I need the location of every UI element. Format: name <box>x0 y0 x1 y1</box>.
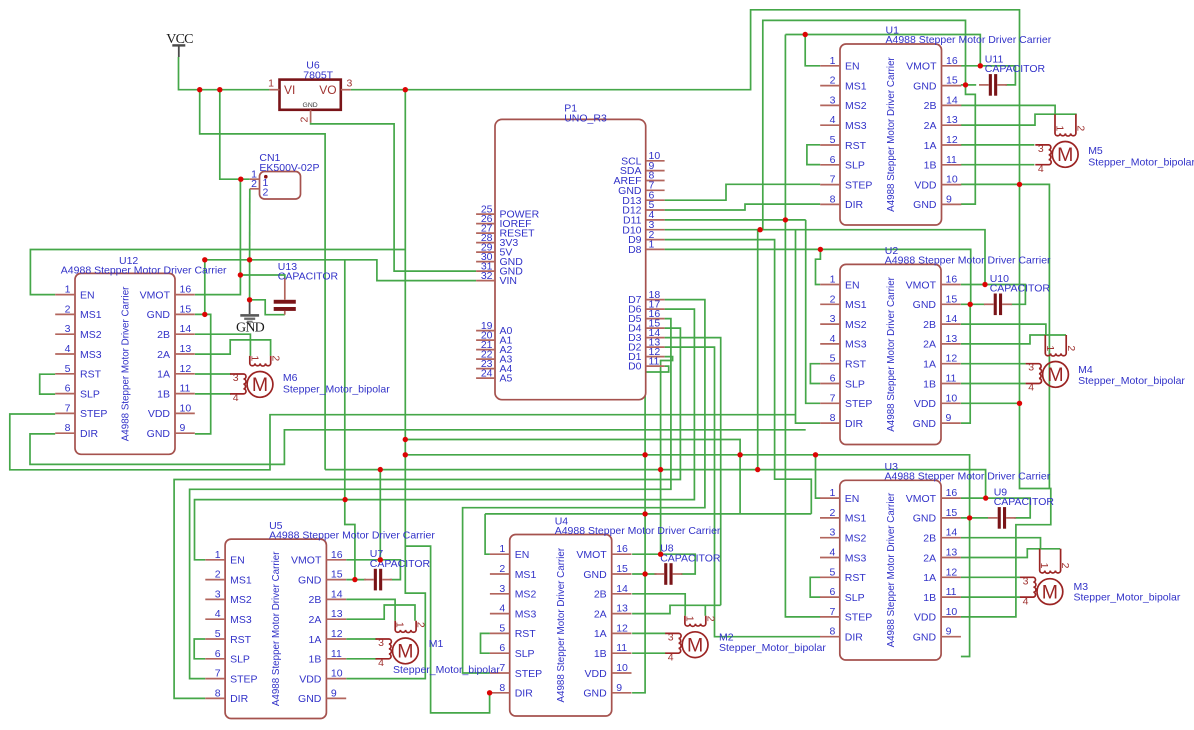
M6 coil pins 1,2 <box>250 356 271 366</box>
P1 pin 18 D7 <box>646 299 665 301</box>
junction bus <box>642 511 647 516</box>
junction U4 VMOT <box>658 552 663 557</box>
svg-text:1B: 1B <box>923 378 936 390</box>
svg-text:A4988 Stepper Motor Driver Car: A4988 Stepper Motor Driver Carrier <box>556 547 567 702</box>
U3 pin 6 SLP <box>820 596 840 598</box>
M6 coil pins 3,4 <box>230 374 246 394</box>
U12 pin 1 EN <box>55 294 75 296</box>
wire U2 2B to M4 <box>961 324 1046 335</box>
junction U2 VMOT <box>982 282 987 287</box>
P1 pin 26 IOREF <box>476 223 495 225</box>
wire U1 2B to M5 <box>961 105 1055 114</box>
svg-text:14: 14 <box>946 527 958 539</box>
svg-text:13: 13 <box>946 114 958 126</box>
M5 motor body <box>1052 142 1078 168</box>
svg-text:STEP: STEP <box>515 668 542 680</box>
stepper motor M3 <box>1020 549 1181 608</box>
svg-text:GND: GND <box>913 80 937 92</box>
wire U5 2B to M1 <box>346 599 395 620</box>
svg-text:GND: GND <box>913 513 937 525</box>
wire D2 to U3 DIR <box>665 347 821 637</box>
svg-text:13: 13 <box>331 608 343 620</box>
U3 pin 1 EN <box>820 497 840 499</box>
U1 pin 2 MS1 <box>820 85 840 87</box>
svg-text:STEP: STEP <box>80 408 107 420</box>
P1 pin 5 D12 <box>646 209 665 211</box>
svg-text:VMOT: VMOT <box>140 289 171 301</box>
U1 pin 13 2A <box>942 124 962 126</box>
svg-text:2A: 2A <box>309 614 322 626</box>
svg-text:1: 1 <box>248 355 260 361</box>
svg-text:GND: GND <box>147 309 171 321</box>
svg-text:3: 3 <box>215 588 221 600</box>
svg-text:2B: 2B <box>923 319 936 331</box>
svg-text:RST: RST <box>845 140 867 152</box>
svg-text:STEP: STEP <box>230 673 257 685</box>
svg-text:8: 8 <box>829 626 835 638</box>
svg-text:8: 8 <box>499 682 505 694</box>
wire VMOT bus <box>325 470 986 499</box>
svg-text:VDD: VDD <box>585 668 608 680</box>
svg-text:RST: RST <box>845 572 867 584</box>
P1 pin 21 A2 <box>476 349 495 351</box>
svg-text:MS2: MS2 <box>230 594 252 606</box>
stepper motor M4 <box>1026 335 1186 394</box>
U5 pin 9 GND <box>326 697 346 699</box>
svg-text:A4988 Stepper Motor Driver Car: A4988 Stepper Motor Driver Carrier <box>886 34 1052 46</box>
svg-text:MS1: MS1 <box>845 299 867 311</box>
svg-text:1A: 1A <box>157 369 170 381</box>
wire U3 VMOT to U9 <box>961 498 1030 518</box>
svg-text:A4988 Stepper Motor Driver Car: A4988 Stepper Motor Driver Carrier <box>886 492 897 647</box>
svg-text:11: 11 <box>180 383 191 395</box>
svg-text:A4988 Stepper Motor Driver Car: A4988 Stepper Motor Driver Carrier <box>555 525 721 537</box>
wire U1 2A to M5 <box>961 114 1077 125</box>
P1 pin 19 A0 <box>476 330 495 332</box>
junction top <box>803 32 808 37</box>
U4 pin 15 GND <box>612 573 632 575</box>
svg-text:1A: 1A <box>923 572 936 584</box>
wire U4 EN <box>485 514 490 554</box>
wire D7 to U4 STEP <box>463 300 705 673</box>
P1 pin 15 D4 <box>646 327 665 329</box>
P1 pin 23 A4 <box>476 368 495 370</box>
svg-text:1: 1 <box>683 616 695 622</box>
junction U13 top <box>238 272 243 277</box>
P1 pin 16 D5 <box>646 318 665 320</box>
svg-text:7: 7 <box>829 606 835 618</box>
U5 pin 15 GND <box>326 579 346 581</box>
P1 pin 11 D0 <box>646 365 665 367</box>
svg-text:1: 1 <box>65 284 71 296</box>
wire U2 VMOT to U10 <box>961 285 1026 305</box>
svg-text:GND: GND <box>913 418 937 430</box>
junction CN1 pin1 <box>238 177 243 182</box>
svg-text:1: 1 <box>499 543 505 555</box>
svg-text:9: 9 <box>946 626 952 638</box>
svg-text:GND: GND <box>913 299 937 311</box>
junction U12 GND15 <box>202 312 207 317</box>
svg-text:8: 8 <box>830 193 836 205</box>
svg-text:A4988 Stepper Motor Driver Car: A4988 Stepper Motor Driver Carrier <box>886 56 897 211</box>
svg-text:4: 4 <box>830 333 836 345</box>
junction U5 VMOT <box>378 557 383 562</box>
svg-text:VIN: VIN <box>500 275 518 287</box>
svg-text:1: 1 <box>830 55 836 67</box>
svg-text:VMOT: VMOT <box>906 279 937 291</box>
P1 pin 31 GND <box>476 270 495 272</box>
svg-text:2A: 2A <box>923 339 936 351</box>
svg-text:Stepper_Motor_bipolar: Stepper_Motor_bipolar <box>283 384 390 396</box>
wire U3 GND15 to U9 <box>961 517 988 519</box>
svg-text:MS3: MS3 <box>845 552 867 564</box>
junction node B <box>247 257 252 262</box>
svg-text:16: 16 <box>331 549 343 561</box>
U2 pin 16 VMOT <box>941 284 961 286</box>
U2 pin 5 RST <box>820 363 840 365</box>
M5 coil pins 1,2 <box>1055 114 1076 136</box>
wire U4 1A to M2 <box>632 632 666 634</box>
wire to U13 top <box>240 275 284 279</box>
svg-text:8: 8 <box>215 687 221 699</box>
wire GND net down to U5 GND <box>345 260 355 580</box>
svg-text:1B: 1B <box>594 648 607 660</box>
wire D6 to U5 EN <box>195 309 695 560</box>
wire U2 DIR up <box>796 230 821 423</box>
svg-text:12: 12 <box>331 628 343 640</box>
wire D0 down to U4 GND9 <box>632 366 669 693</box>
svg-text:CAPACITOR: CAPACITOR <box>985 63 1046 75</box>
svg-text:6: 6 <box>830 373 836 385</box>
svg-text:10: 10 <box>180 402 192 414</box>
M4 coil pins 3,4 <box>1026 364 1042 384</box>
svg-text:SLP: SLP <box>845 378 865 390</box>
svg-text:EN: EN <box>845 279 860 291</box>
U2 pin 7 STEP <box>820 402 840 404</box>
P1 pin 10 SCL <box>646 160 665 162</box>
junction 5V bus A <box>403 437 408 442</box>
svg-text:4: 4 <box>668 651 674 663</box>
M2 motor body <box>682 632 708 658</box>
svg-text:DIR: DIR <box>845 632 864 644</box>
wire CN1 pin1 to U12 VMOT <box>195 179 241 294</box>
wire U4 EN bus <box>485 513 811 515</box>
svg-text:D0: D0 <box>628 361 642 373</box>
svg-text:MS3: MS3 <box>845 120 867 132</box>
wire U4 RST-SLP <box>481 633 490 653</box>
svg-text:10: 10 <box>946 392 958 404</box>
svg-text:DIR: DIR <box>515 688 534 700</box>
svg-text:2: 2 <box>830 293 836 305</box>
U1 pin 5 RST <box>820 144 840 146</box>
U4 pin 14 2B <box>612 593 632 595</box>
wire U3 1A to M3 <box>961 576 1020 578</box>
wire U12 GND15 to GND9 <box>195 314 211 434</box>
svg-text:3: 3 <box>233 372 239 384</box>
svg-text:M: M <box>397 641 413 663</box>
U1 pin 9 GND <box>942 203 962 205</box>
svg-text:STEP: STEP <box>845 179 872 191</box>
svg-text:10: 10 <box>331 668 343 680</box>
svg-text:12: 12 <box>946 134 958 146</box>
svg-text:13: 13 <box>180 343 192 355</box>
wire U12 1A to M6 <box>195 373 231 375</box>
U3 pin 8 DIR <box>820 636 840 638</box>
junction GND node <box>247 297 252 302</box>
svg-text:5: 5 <box>829 566 835 578</box>
junction bus <box>642 452 647 457</box>
M2 coil pins 1,2 <box>685 616 706 627</box>
wire U2 GND15 to U10 <box>961 303 985 305</box>
A4988 stepper driver U1 <box>820 25 1052 225</box>
svg-text:MS1: MS1 <box>515 569 537 581</box>
svg-text:3: 3 <box>829 527 835 539</box>
M6 motor body <box>247 372 273 398</box>
U1 pin 1 EN <box>820 65 840 67</box>
svg-text:2: 2 <box>1065 345 1077 351</box>
wire U4 VMOT to U8 <box>632 554 695 574</box>
wire VMOT bus to U5 VMOT <box>379 470 381 560</box>
M1 coil pins 3,4 <box>376 639 392 659</box>
U3 pin 7 STEP <box>820 616 840 618</box>
wire U3 GND15 to GND9 <box>961 518 970 657</box>
junction U4 DIR <box>487 690 492 695</box>
svg-text:SLP: SLP <box>230 654 250 666</box>
P1 pin 2 D9 <box>646 239 665 241</box>
U3 pin 10 VDD <box>941 616 961 618</box>
U5 pin 13 2A <box>326 618 346 620</box>
svg-text:2B: 2B <box>924 100 937 112</box>
svg-text:10: 10 <box>946 174 958 186</box>
wire to U2 EN <box>816 249 821 284</box>
svg-text:M: M <box>1042 581 1058 603</box>
wire VCC to U6 VI <box>179 57 270 90</box>
U1 pin 6 SLP <box>820 164 840 166</box>
svg-text:GND: GND <box>583 569 607 581</box>
wire U1 1A to M5 <box>961 144 1035 146</box>
P1 pin 14 D3 <box>646 337 665 339</box>
svg-text:16: 16 <box>180 284 192 296</box>
svg-text:1: 1 <box>215 549 221 561</box>
svg-text:4: 4 <box>499 603 505 615</box>
M1 coil pins 1,2 <box>395 621 416 633</box>
svg-text:STEP: STEP <box>845 612 872 624</box>
svg-text:4: 4 <box>233 392 239 404</box>
U3 pin 14 2B <box>941 537 961 539</box>
wire U1 VMOT to U11 <box>961 66 1016 85</box>
svg-text:SLP: SLP <box>845 592 865 604</box>
svg-text:3: 3 <box>1028 362 1034 374</box>
svg-text:2: 2 <box>499 563 505 575</box>
U3 pin 15 GND <box>941 517 961 519</box>
P1 pin 3 D10 <box>646 229 665 231</box>
svg-text:9: 9 <box>616 682 622 694</box>
wire D3 down <box>665 338 721 606</box>
U5 pin 10 VDD <box>326 678 346 680</box>
svg-text:Stepper_Motor_bipolar: Stepper_Motor_bipolar <box>1074 592 1181 604</box>
svg-text:CAPACITOR: CAPACITOR <box>994 496 1055 508</box>
U12 pin 4 MS3 <box>55 353 75 355</box>
wire U2 STEP up <box>806 220 821 403</box>
svg-text:1: 1 <box>394 622 406 628</box>
svg-text:8: 8 <box>65 422 71 434</box>
svg-text:1A: 1A <box>923 359 936 371</box>
svg-text:2: 2 <box>299 117 311 123</box>
svg-text:14: 14 <box>180 323 192 335</box>
U4 pin 2 MS1 <box>490 573 510 575</box>
U12 pin 6 SLP <box>55 393 75 395</box>
wire U12 2B to M6 <box>195 334 251 356</box>
U5 pin 12 1A <box>326 638 346 640</box>
wire U3 RST-SLP <box>810 577 820 597</box>
svg-text:CAPACITOR: CAPACITOR <box>990 283 1051 295</box>
svg-text:1: 1 <box>649 239 655 251</box>
svg-text:7: 7 <box>215 668 221 680</box>
U2 pin 6 SLP <box>820 383 840 385</box>
P1 pin 29 5V <box>476 251 495 253</box>
svg-text:2A: 2A <box>924 120 937 132</box>
svg-text:9: 9 <box>946 193 952 205</box>
junction U4 GND15 <box>642 571 647 576</box>
svg-text:MS2: MS2 <box>845 533 867 545</box>
svg-text:3: 3 <box>830 94 836 106</box>
U2 pin 14 2B <box>941 323 961 325</box>
U4 pin 16 VMOT <box>612 553 632 555</box>
svg-text:2: 2 <box>251 178 257 190</box>
svg-text:14: 14 <box>331 588 343 600</box>
svg-text:D8: D8 <box>628 244 642 256</box>
M3 motor body <box>1037 579 1063 605</box>
svg-text:2A: 2A <box>594 608 607 620</box>
svg-text:1: 1 <box>1038 563 1050 569</box>
M4 motor body <box>1043 362 1069 388</box>
svg-text:2: 2 <box>215 569 221 581</box>
M3 coil pins 1,2 <box>1040 549 1061 573</box>
svg-text:1B: 1B <box>157 388 170 400</box>
svg-text:GND: GND <box>147 428 171 440</box>
svg-text:1A: 1A <box>924 140 937 152</box>
svg-text:4: 4 <box>65 343 71 355</box>
svg-text:9: 9 <box>946 412 952 424</box>
svg-text:VMOT: VMOT <box>576 549 607 561</box>
U4 pin 3 MS2 <box>490 593 510 595</box>
wire D12 to U1 DIR <box>665 204 821 210</box>
wire U2 1B to M4 <box>961 383 1026 385</box>
P1 pin 13 D2 <box>646 346 665 348</box>
wire U1 GND15 to U11 <box>961 84 976 86</box>
svg-text:1: 1 <box>829 487 835 499</box>
svg-text:Stepper_Motor_bipolar: Stepper_Motor_bipolar <box>719 642 826 654</box>
wire U12 GND15 up <box>204 260 206 315</box>
svg-text:A4988 Stepper Motor Driver Car: A4988 Stepper Motor Driver Carrier <box>885 471 1051 483</box>
svg-text:EN: EN <box>80 289 95 301</box>
wire to GND symbol <box>249 260 251 300</box>
svg-text:MS3: MS3 <box>515 608 537 620</box>
U5 pin 7 STEP <box>205 678 225 680</box>
U4 pin 8 DIR <box>490 692 510 694</box>
svg-text:MS1: MS1 <box>230 574 252 586</box>
svg-text:A4988 Stepper Motor Driver Car: A4988 Stepper Motor Driver Carrier <box>61 265 227 277</box>
svg-text:2B: 2B <box>594 589 607 601</box>
P1 pin 22 A3 <box>476 358 495 360</box>
junction D8 U2 EN <box>818 247 823 252</box>
wire GND net to P1 VIN <box>205 260 476 281</box>
svg-text:VDD: VDD <box>299 673 322 685</box>
P1 pin 7 GND <box>646 189 665 191</box>
U5 pin 1 EN <box>205 559 225 561</box>
svg-text:1: 1 <box>1044 345 1056 351</box>
U1 pin 7 STEP <box>820 184 840 186</box>
wire D1 down to U4 VMOT <box>661 357 673 555</box>
junction VMOT bus U4 <box>658 467 663 472</box>
wire to U1 EN <box>805 35 820 66</box>
svg-text:A4988 Stepper Motor Driver Car: A4988 Stepper Motor Driver Carrier <box>885 255 1051 267</box>
ground symbol <box>236 300 265 336</box>
svg-text:EN: EN <box>230 555 245 567</box>
svg-text:EN: EN <box>845 61 860 73</box>
wire to U13 bottom <box>250 300 285 315</box>
svg-text:2: 2 <box>415 622 427 628</box>
svg-text:2: 2 <box>830 75 836 87</box>
svg-text:11: 11 <box>946 154 957 166</box>
junction D10 <box>757 227 762 232</box>
svg-text:VMOT: VMOT <box>291 555 322 567</box>
wire D5 to U5 STEP <box>190 319 671 679</box>
svg-text:3: 3 <box>499 583 505 595</box>
U5 pin 3 MS2 <box>205 598 225 600</box>
U2 pin 4 MS3 <box>820 343 840 345</box>
svg-text:M1: M1 <box>429 638 444 650</box>
svg-text:14: 14 <box>946 313 958 325</box>
U12 pin 16 VMOT <box>175 294 195 296</box>
wire U4 GND15 to U8 <box>632 573 656 575</box>
svg-text:Stepper_Motor_bipolar: Stepper_Motor_bipolar <box>1088 157 1194 169</box>
svg-text:1: 1 <box>1054 125 1066 131</box>
U5 pin 16 VMOT <box>326 559 346 561</box>
svg-text:15: 15 <box>946 293 958 305</box>
svg-text:M: M <box>687 634 703 656</box>
svg-text:M6: M6 <box>283 372 298 384</box>
junction VCC rail B <box>217 87 222 92</box>
svg-text:16: 16 <box>946 55 958 67</box>
junction 5V bus B <box>403 452 408 457</box>
U1 pin 11 1B <box>942 164 962 166</box>
U5 pin 8 DIR <box>205 697 225 699</box>
VCC power symbol <box>166 32 193 57</box>
A4988 stepper driver U2 <box>820 245 1051 445</box>
svg-text:6: 6 <box>830 154 836 166</box>
svg-text:MS1: MS1 <box>845 513 867 525</box>
svg-text:4: 4 <box>1028 382 1034 394</box>
U5 pin 11 1B <box>326 658 346 660</box>
svg-text:5: 5 <box>830 353 836 365</box>
junction node A <box>202 257 207 262</box>
wire U6 GND to P1 GND <box>311 123 477 272</box>
wire D4 to U5 DIR <box>174 328 680 698</box>
U4 pin 4 MS3 <box>490 613 510 615</box>
junction D11 <box>783 217 788 222</box>
svg-text:2: 2 <box>65 303 71 315</box>
svg-text:9: 9 <box>180 422 186 434</box>
svg-text:MS2: MS2 <box>515 589 537 601</box>
capacitor U11 <box>979 53 1046 95</box>
wire U1 RST-SLP <box>807 145 820 165</box>
svg-text:1B: 1B <box>923 592 936 604</box>
wire 5V to U5 VDD <box>346 90 425 679</box>
U2 pin 12 1A <box>941 363 961 365</box>
svg-text:VMOT: VMOT <box>906 493 937 505</box>
svg-text:GND: GND <box>913 199 937 211</box>
